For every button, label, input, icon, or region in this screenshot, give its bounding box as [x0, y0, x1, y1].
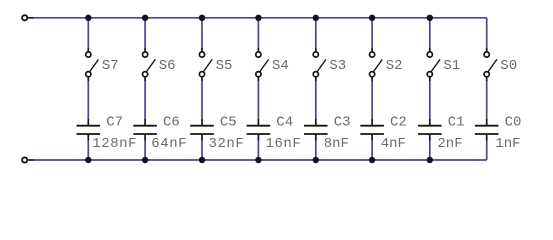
- svg-text:S0: S0: [500, 58, 517, 74]
- svg-text:4nF: 4nF: [381, 136, 406, 152]
- svg-text:S5: S5: [216, 58, 233, 74]
- svg-text:S2: S2: [386, 58, 403, 74]
- svg-text:16nF: 16nF: [266, 136, 302, 152]
- svg-text:64nF: 64nF: [151, 136, 187, 152]
- svg-text:8nF: 8nF: [324, 136, 349, 152]
- svg-text:C6: C6: [163, 115, 180, 131]
- svg-text:32nF: 32nF: [209, 136, 245, 152]
- svg-text:C7: C7: [106, 115, 123, 131]
- svg-text:2nF: 2nF: [437, 136, 462, 152]
- svg-text:S4: S4: [272, 58, 289, 74]
- svg-text:C2: C2: [390, 115, 407, 131]
- svg-text:S6: S6: [159, 58, 176, 74]
- svg-text:C3: C3: [334, 115, 351, 131]
- svg-text:C0: C0: [505, 115, 522, 131]
- svg-text:128nF: 128nF: [92, 136, 137, 152]
- svg-text:S7: S7: [102, 58, 119, 74]
- svg-text:C1: C1: [448, 115, 465, 131]
- svg-text:S3: S3: [329, 58, 346, 74]
- svg-text:C4: C4: [276, 115, 293, 131]
- svg-text:1nF: 1nF: [495, 136, 520, 152]
- svg-text:S1: S1: [443, 58, 460, 74]
- svg-text:C5: C5: [220, 115, 237, 131]
